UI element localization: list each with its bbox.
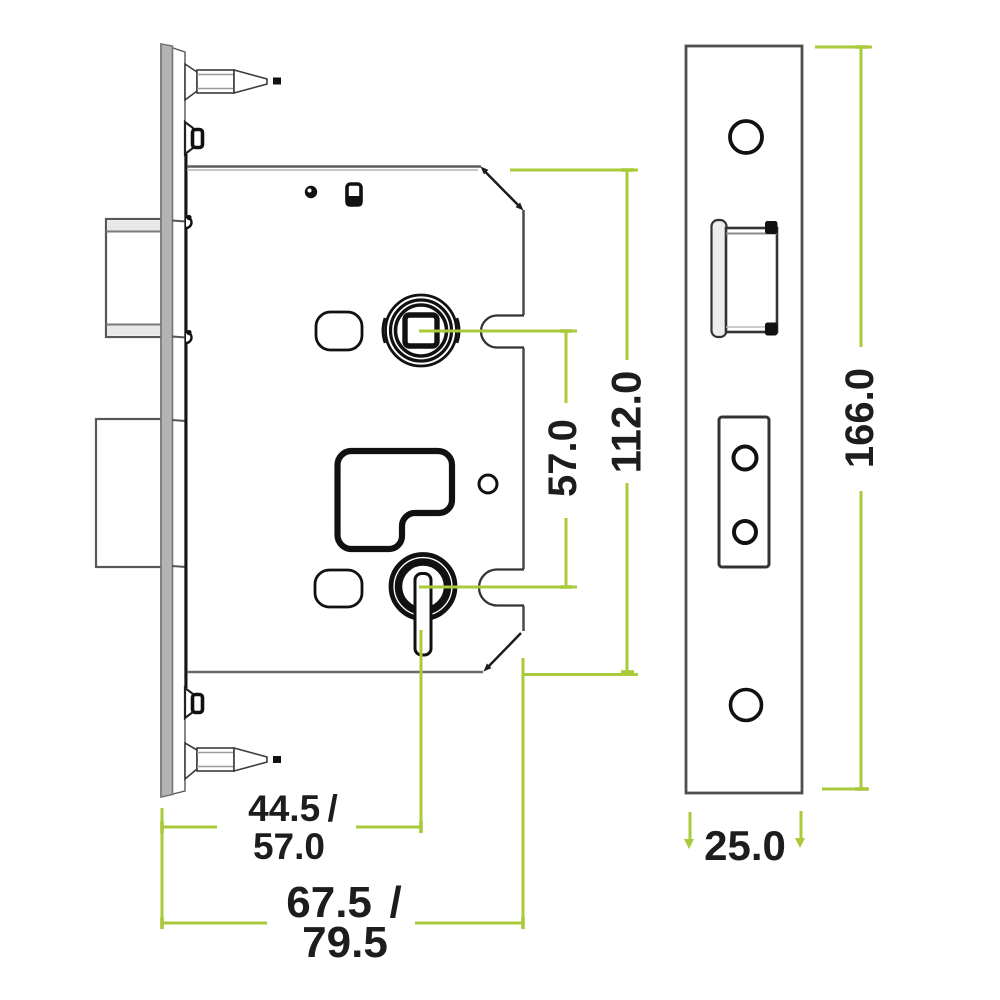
25.0 end marks (689, 812, 692, 841)
svg-text:57.0: 57.0 (541, 419, 585, 497)
body left-edge lug (lower) (186, 330, 192, 343)
ext line spindle centre (419, 330, 577, 333)
bottom fixing clip (185, 688, 203, 718)
bottom mounting pin (185, 743, 281, 779)
body left-edge lug (upper) (186, 215, 192, 228)
top fixing clip (185, 122, 203, 154)
ext line turn centre vertical (420, 630, 423, 827)
dim line 67.5/79.5 (162, 922, 267, 925)
svg-text:25.0: 25.0 (704, 822, 786, 869)
dead bolt (edge view box, lower-left) (96, 419, 166, 567)
small circle right of cam (479, 475, 497, 493)
staple / spring anchor (346, 184, 363, 207)
bathroom turn follower (391, 555, 455, 656)
turn hub cam cutout (338, 451, 453, 549)
ext line case rear vertical (522, 658, 525, 927)
dim line 44.5/57.0 (162, 826, 217, 829)
spindle follower (square hub) (383, 295, 459, 366)
dim line 112.0 (626, 170, 629, 360)
ext line plate top (815, 46, 872, 49)
ext line case bottom (524, 673, 638, 676)
svg-text:112.0: 112.0 (603, 371, 650, 474)
svg-text:79.5: 79.5 (302, 918, 388, 967)
upper edge notch (spindle level) (481, 316, 524, 348)
latch aperture (726, 221, 778, 336)
latch aperture side bar (712, 220, 727, 337)
dim line 57.0 (565, 331, 568, 403)
faceplate front outline (686, 46, 802, 793)
dimension texts (248, 368, 882, 967)
ext line turn centre (419, 586, 577, 589)
ext line plate bottom (822, 788, 869, 791)
bolt edge lines crossing faceplate gap (172, 221, 186, 568)
bottom-right chamfer (484, 633, 522, 672)
top screw hole (730, 121, 762, 153)
top-right chamfer (481, 167, 524, 211)
lock case body outline (186, 154, 524, 688)
top mounting pin (185, 64, 281, 100)
lower oval hole (315, 570, 362, 607)
svg-text:166.0: 166.0 (838, 368, 882, 468)
upper oval hole (316, 312, 362, 350)
svg-text:44.5 /: 44.5 / (248, 788, 338, 829)
ext line case top (510, 169, 638, 172)
small rivet dot (305, 186, 317, 198)
latch bolt (edge view box, upper-left) (106, 219, 164, 337)
svg-text:57.0: 57.0 (253, 826, 325, 867)
lower edge notch (turn level) (479, 570, 524, 606)
bottom screw hole (731, 690, 762, 721)
ext line faceplate left vertical (161, 808, 164, 927)
faceplate edge (vertical bar) (161, 44, 185, 797)
dimension ticks (162, 47, 868, 929)
deadbolt aperture (719, 417, 769, 567)
dim line 166.0 (860, 47, 863, 347)
